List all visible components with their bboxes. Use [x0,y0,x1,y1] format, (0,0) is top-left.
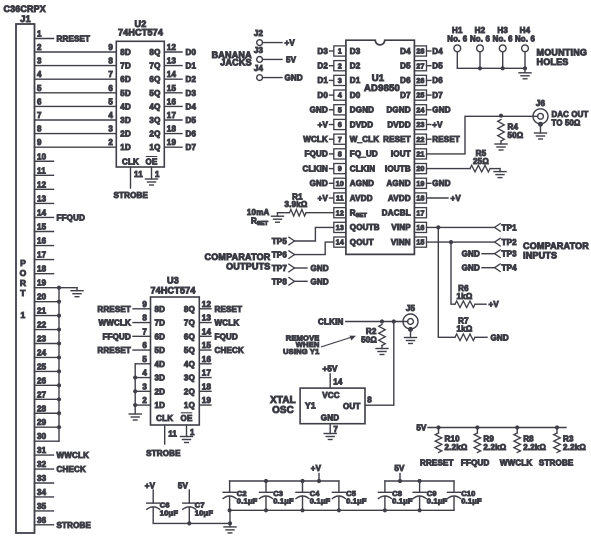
svg-text:GND: GND [432,106,450,115]
U3 input pin 8 [98,314,150,328]
svg-text:HOLES: HOLES [537,57,569,67]
svg-text:10: 10 [336,181,344,188]
svg-text:8: 8 [338,152,342,159]
svg-text:D0: D0 [186,48,197,57]
svg-text:D3: D3 [186,89,197,98]
svg-text:6D: 6D [120,75,131,84]
banana jack J2 (+V) [254,29,296,48]
svg-text:FFQUD: FFQUD [57,213,86,222]
svg-text:23: 23 [416,122,424,129]
svg-text:D4: D4 [400,47,411,56]
U1 pin 24 box [414,105,426,115]
resistor R7 1k to GND [455,317,509,343]
svg-text:RRESET: RRESET [57,35,91,44]
wire J1 pin 4 to U2 6D [35,70,117,79]
test point TP2 [495,238,518,247]
wire J1 pin 7 to U2 3D [35,111,117,120]
svg-text:+V: +V [451,194,462,203]
svg-text:RRESET: RRESET [97,305,131,314]
node GND (U1 pin 10) [310,179,334,188]
svg-text:TP6: TP6 [272,251,288,260]
svg-text:TO 50Ω: TO 50Ω [552,119,581,128]
svg-text:16: 16 [202,355,212,364]
svg-text:2: 2 [37,43,42,52]
svg-text:5: 5 [37,84,42,93]
svg-text:RESET: RESET [383,135,411,144]
U3 input pin 9 [97,300,150,314]
svg-text:7Q: 7Q [184,319,195,328]
svg-text:6Q: 6Q [149,75,160,84]
U1 pin 11 box [334,193,346,203]
Y1 pin 7 GND to ground [330,424,338,434]
ground (U3 unused inputs) [129,414,141,420]
wire J1 pin 21 to ground bus [35,307,60,316]
U2 pin 12 output node D0 [164,43,196,57]
U1 pin 10 box [334,178,346,188]
label COMPARATOR INPUTS [523,241,589,261]
J1 pin 12 [35,180,54,189]
wire J1 pin 5 to U2 5D [35,84,117,93]
svg-text:STROBE: STROBE [57,521,92,530]
resistor R1 3.9k [285,192,308,216]
wire R5 to ground [490,168,500,170]
svg-text:D2: D2 [186,75,197,84]
wire J1 pin 28 to ground bus [35,404,60,413]
svg-text:19: 19 [167,138,177,147]
svg-text:17: 17 [202,369,212,378]
wire VINP node to R7 [438,227,455,337]
op IC U3 74HCT574 [150,276,199,426]
svg-text:FQUD: FQUD [305,150,328,159]
mounting hole H3 [493,26,514,68]
resistor R10 2.2k pullup [435,425,468,452]
svg-text:3: 3 [338,78,342,85]
svg-text:8: 8 [367,396,372,405]
J1 pin 35 [35,502,54,511]
node RRESET [420,458,454,467]
svg-text:26: 26 [416,78,424,85]
svg-text:1Q: 1Q [184,401,195,410]
svg-text:4: 4 [108,111,113,120]
svg-text:4Q: 4Q [149,102,160,111]
U1 pin 15 box [414,237,426,247]
svg-text:+V: +V [318,194,329,203]
svg-text:28: 28 [416,49,424,56]
svg-text:3Q: 3Q [184,374,195,383]
svg-text:COMPARATOR: COMPARATOR [205,252,271,262]
svg-text:D7: D7 [432,91,443,100]
U1 pin 9 box [334,164,346,174]
svg-text:17: 17 [416,210,424,217]
svg-text:D4: D4 [186,102,197,111]
svg-text:15: 15 [416,240,424,247]
U3 pin 1 OE to ground [181,425,196,443]
svg-text:VCC: VCC [322,391,340,400]
svg-text:GND: GND [321,414,339,423]
svg-text:1: 1 [155,170,160,179]
svg-text:CHECK: CHECK [215,346,244,355]
resistor R9 2.2k pullup [474,425,507,452]
svg-text:7D: 7D [155,319,166,328]
svg-text:J2: J2 [254,29,264,38]
svg-text:WCLK: WCLK [303,135,328,144]
svg-text:+V: +V [432,120,443,129]
svg-text:3D: 3D [155,374,166,383]
svg-text:GND: GND [310,179,328,188]
svg-text:DACBL: DACBL [382,209,411,218]
node D7 (U1 pin 25) [427,91,444,100]
svg-text:7: 7 [338,137,342,144]
J1 pin 31 [35,446,90,460]
svg-text:11: 11 [168,430,177,439]
svg-text:14: 14 [336,240,344,247]
svg-text:2D: 2D [155,387,166,396]
J1 pin 14 [35,208,86,222]
svg-text:D3: D3 [317,47,328,56]
svg-text:5Q: 5Q [149,89,160,98]
svg-text:O: O [20,268,27,278]
ground (Y1) [324,434,336,440]
svg-text:FQ_UD: FQ_UD [350,150,378,159]
U3 output pin 17 [199,369,211,378]
svg-text:6Q: 6Q [184,332,195,341]
svg-text:31: 31 [37,446,47,455]
svg-text:OSC: OSC [272,405,294,416]
J1 pin 11 [35,166,54,175]
svg-text:WWCLK: WWCLK [500,458,533,467]
svg-text:5V: 5V [178,481,189,490]
svg-text:17: 17 [167,111,177,120]
svg-text:4Q: 4Q [184,360,195,369]
resistor R4 50 ohm [498,120,524,142]
wire J1 pin 9 to U2 1D [35,138,117,147]
svg-text:0.1μF: 0.1μF [237,496,258,505]
mounting hole H2 [470,26,491,68]
svg-text:D6: D6 [186,130,197,139]
svg-text:4D: 4D [120,102,131,111]
U2 pin 18 output node D6 [164,125,196,139]
svg-text:18: 18 [37,265,47,274]
wire U1 pin 13 QOUTB to TP5 [295,227,334,241]
svg-text:0.1μF: 0.1μF [346,496,367,505]
wire J1 pin 26 to ground bus [35,376,60,385]
wire J1 pin 30 to ground bus [35,432,60,441]
svg-text:TP2: TP2 [502,238,518,247]
arrow annotation to R2 [322,336,357,347]
node 5V pullup rail [416,424,566,433]
svg-text:T: T [20,288,26,298]
svg-text:D1: D1 [350,76,361,85]
svg-text:8: 8 [37,125,42,134]
svg-text:19: 19 [37,279,47,288]
svg-text:OUT: OUT [343,402,361,411]
resistor R8 2.2k pullup [514,425,547,452]
U3 output pin 13 [199,314,239,328]
svg-text:+V: +V [285,39,296,48]
svg-text:U3: U3 [167,276,179,286]
svg-text:J4: J4 [254,64,264,73]
svg-text:26: 26 [37,376,47,385]
svg-text:No. 6: No. 6 [515,34,536,43]
wire R1 to ground [278,212,290,214]
svg-text:21: 21 [416,152,424,159]
wire J1 pin 23 to ground bus [35,335,60,344]
resistor R5 25 ohm [470,149,490,172]
svg-text:D4: D4 [432,47,443,56]
ground (J6 shell) [535,124,547,139]
U1 pin 1 box [334,46,346,56]
svg-text:74HCT574: 74HCT574 [150,286,195,296]
node WCLK (U1 pin 7) [303,135,334,144]
wire J1 pin 19 to ground bus [35,279,60,288]
U1 pin 3 box [334,75,346,85]
capacitor C5 0.1uF [332,481,367,510]
wire VINN node to R6 [451,242,455,304]
op IC U1 AD9850 [346,40,415,254]
U1 pin 16 box [414,222,426,232]
node +V (U1 pin 18) [427,194,462,203]
test point TP7 to GND [272,264,329,273]
node D4 (U1 pin 28) [427,47,444,56]
svg-text:5V: 5V [394,464,405,473]
U2 pin 11 CLK (STROBE) [114,167,149,200]
svg-text:W_CLK: W_CLK [350,135,379,144]
node FQUD (U1 pin 8) [305,150,334,159]
svg-text:6: 6 [338,122,342,129]
svg-text:2.2kΩ: 2.2kΩ [483,443,506,452]
U1 pin 5 box [334,105,346,115]
svg-text:50Ω: 50Ω [508,131,524,140]
svg-text:C36CRPX: C36CRPX [4,4,46,14]
svg-text:22: 22 [416,137,424,144]
svg-text:16: 16 [37,237,47,246]
resistor R2 50 ohm [361,325,385,346]
svg-text:J1: J1 [20,14,31,24]
capacitor C8 0.1uF [378,481,413,510]
svg-text:32: 32 [37,460,47,469]
svg-text:0.1μF: 0.1μF [427,496,448,505]
svg-text:7: 7 [108,70,113,79]
svg-text:D7: D7 [186,143,197,152]
U1 pin 13 box [334,222,346,232]
svg-text:RRESET: RRESET [97,346,131,355]
J1 pin 17 [35,251,54,260]
svg-text:STROBE: STROBE [114,191,149,200]
svg-text:9: 9 [108,43,113,52]
svg-text:4: 4 [37,70,42,79]
U1 pin 25 box [414,90,426,100]
svg-text:14: 14 [202,327,212,336]
svg-text:INPUTS: INPUTS [523,251,557,261]
label REMOVE WHEN USING Y1 [283,333,319,356]
svg-text:2D: 2D [120,130,131,139]
svg-text:GND: GND [432,179,450,188]
svg-text:D3: D3 [350,47,361,56]
U1 pin 26 box [414,75,426,85]
svg-text:D5: D5 [432,62,443,71]
svg-text:+V: +V [318,120,329,129]
svg-text:AVDD: AVDD [350,194,373,203]
wire U1 pin 12 to R1 [306,212,334,214]
node GND (U1 pin 5) [310,106,334,115]
svg-text:P: P [20,258,26,268]
banana jack J3 (5V) [254,46,297,65]
svg-text:13: 13 [37,194,47,203]
svg-text:2Q: 2Q [149,130,160,139]
svg-text:IOUTB: IOUTB [385,164,411,173]
J1 pin 32 [35,460,86,474]
capacitor C10 0.1uF [448,481,483,510]
svg-text:STROBE: STROBE [146,449,181,458]
svg-text:AGND: AGND [350,179,374,188]
wire C6/C7 ground rail [153,510,232,525]
U2 pin 13 output node D1 [164,57,196,71]
svg-text:D0: D0 [317,91,328,100]
test point TP3 (GND) [462,250,518,259]
svg-text:17: 17 [37,251,47,260]
svg-text:RESET: RESET [432,135,460,144]
U1 pin 7 box [334,134,346,144]
mounting hole H1 [447,26,468,68]
svg-text:0.1μF: 0.1μF [461,496,482,505]
wire Y1 OUT to CLKIN node [365,322,394,406]
label DAC OUT TO 50 ohm [552,110,589,128]
svg-text:18: 18 [416,196,424,203]
svg-text:5Q: 5Q [184,346,195,355]
oscillator Y1 XTAL OSC [270,388,365,424]
svg-text:J5: J5 [406,304,416,313]
svg-text:GND: GND [311,277,329,286]
svg-text:21: 21 [37,307,47,316]
wire mounting hole bus [457,66,527,70]
svg-text:+V: +V [311,464,322,473]
svg-text:9: 9 [142,300,147,309]
svg-text:AVDD: AVDD [388,194,411,203]
node D5 (U1 pin 27) [427,62,444,71]
svg-text:1kΩ: 1kΩ [457,324,473,333]
ground (R4) [495,141,507,150]
svg-text:14: 14 [167,70,177,79]
svg-text:8D: 8D [155,305,166,314]
svg-text:TP4: TP4 [502,264,518,273]
wire J1 pin 24 to ground bus [35,348,60,357]
svg-text:7: 7 [37,111,42,120]
node WWCLK [500,458,533,467]
U3 output pin 14 [199,327,238,341]
svg-text:No. 6: No. 6 [447,34,468,43]
svg-text:2Q: 2Q [184,387,195,396]
svg-text:19: 19 [416,181,424,188]
svg-text:DVDD: DVDD [350,120,373,129]
svg-text:RESET: RESET [215,305,243,314]
svg-text:25Ω: 25Ω [473,157,489,166]
node +V (U1 pin 11) [318,194,334,203]
svg-text:D0: D0 [350,91,361,100]
svg-text:14: 14 [333,378,343,387]
svg-text:11: 11 [134,170,143,179]
U1 pin 22 box [414,134,426,144]
U2 pin 14 output node D2 [164,70,196,84]
svg-text:20: 20 [416,166,424,173]
test point TP4 (GND) [462,264,518,273]
label BANANA JACKS [212,50,252,67]
svg-text:7: 7 [333,425,338,434]
ground bus along J1 pins 19-30 [57,286,77,442]
svg-text:CLK: CLK [156,414,173,423]
ground (R5) [494,169,506,178]
U2 pin 17 output node D5 [164,111,196,125]
svg-text:WWCLK: WWCLK [57,451,90,460]
svg-text:25: 25 [416,93,424,100]
ground (supply caps) [224,523,236,533]
svg-text:+V: +V [145,481,156,490]
U1 pin 28 box [414,46,426,56]
svg-text:35: 35 [37,502,47,511]
U1 pin 2 box [334,61,346,71]
svg-text:1: 1 [338,49,342,56]
svg-text:50Ω: 50Ω [361,335,377,344]
svg-text:2.2kΩ: 2.2kΩ [523,443,546,452]
wire U3 4D-1D tie to ground [133,364,137,414]
svg-text:12: 12 [167,43,177,52]
capacitor C6 10uF (+V) [145,481,179,523]
svg-text:CLKIN: CLKIN [350,164,375,173]
svg-text:25: 25 [37,362,47,371]
svg-text:OE: OE [146,158,158,167]
svg-text:6: 6 [108,84,113,93]
U1 pin 12 box [334,208,346,218]
svg-text:12: 12 [336,210,344,217]
svg-text:9: 9 [37,138,42,147]
wire capacitor bottom rail [228,508,455,512]
wire U1 pin 14 QOUT to TP6 [295,242,334,255]
svg-text:5: 5 [142,355,147,364]
J1 pin 10 [35,152,54,161]
capacitor C2 0.1uF [223,481,258,510]
svg-text:18: 18 [202,382,212,391]
resistor R3 2.2k pullup [554,425,587,452]
svg-text:14: 14 [37,208,47,217]
svg-text:3: 3 [142,382,147,391]
svg-text:OUTPUTS: OUTPUTS [226,261,270,271]
svg-text:RRESET: RRESET [420,458,454,467]
svg-text:D6: D6 [432,76,443,85]
mounting hole H4 [515,26,536,68]
node D0 (U1 pin 4) [317,91,333,100]
svg-text:WCLK: WCLK [215,319,240,328]
svg-text:10μF: 10μF [160,508,179,517]
svg-text:3D: 3D [120,116,131,125]
node GND (U1 pin 19) [427,179,451,188]
svg-text:27: 27 [416,63,424,70]
svg-text:J3: J3 [254,46,264,55]
svg-text:COMPARATOR: COMPARATOR [523,241,589,251]
J1 pin 33 [35,474,54,483]
svg-text:6: 6 [37,97,42,106]
svg-text:AD9850: AD9850 [364,83,400,94]
svg-text:5: 5 [108,97,113,106]
svg-text:GND: GND [462,264,480,273]
U3 output pin 16 [199,355,211,364]
J1 pin 36 [35,516,92,530]
svg-text:4D: 4D [155,360,166,369]
wire J1 pin 2 to U2 8D [35,43,117,52]
coax jack J6 [533,99,548,127]
svg-text:TP1: TP1 [502,223,518,232]
svg-text:36: 36 [37,516,47,525]
svg-text:8: 8 [108,57,113,66]
node RESET (U1 pin 22) [427,135,460,144]
